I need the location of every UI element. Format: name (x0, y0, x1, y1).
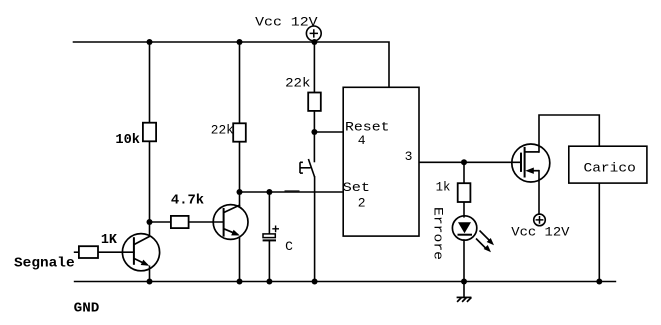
svg-text:Set: Set (343, 180, 371, 195)
svg-text:1k: 1k (436, 179, 451, 194)
svg-text:10k: 10k (115, 132, 140, 148)
svg-text:4.7k: 4.7k (171, 193, 204, 209)
svg-text:Carico: Carico (584, 161, 636, 176)
svg-text:22k: 22k (285, 75, 311, 90)
svg-text:22k: 22k (211, 123, 234, 138)
svg-text:Vcc 12V: Vcc 12V (511, 225, 569, 240)
svg-text:Segnale: Segnale (14, 255, 75, 271)
svg-text:3: 3 (405, 149, 413, 164)
svg-text:Errore: Errore (431, 207, 446, 260)
svg-text:4: 4 (358, 133, 366, 148)
svg-text:1K: 1K (101, 232, 118, 248)
svg-text:Reset: Reset (345, 119, 390, 134)
svg-text:GND: GND (74, 301, 100, 317)
svg-text:C: C (285, 239, 293, 254)
svg-text:Vcc 12V: Vcc 12V (255, 14, 318, 29)
svg-text:2: 2 (358, 195, 366, 210)
